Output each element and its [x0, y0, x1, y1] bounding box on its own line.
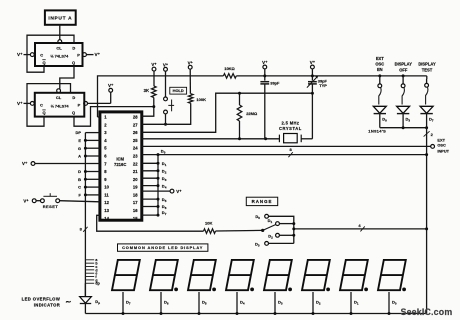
svg-text:½ 74LS74: ½ 74LS74: [51, 103, 70, 108]
terminal V+ pin 7: [31, 162, 35, 166]
wire reset switch to pin 12: [60, 201, 100, 202]
terminal ext osc input: [431, 145, 435, 149]
label HOLD: [170, 87, 187, 94]
svg-text:V⁺: V⁺: [22, 161, 27, 166]
seven-segment digit 1: [112, 260, 140, 290]
junction C1 bottom: [264, 137, 267, 140]
label RANGE box: [246, 197, 277, 205]
svg-text:½ 74LS74: ½ 74LS74: [50, 53, 69, 58]
wire display common rail: [85, 313, 426, 315]
svg-text:V⁺: V⁺: [17, 52, 23, 57]
wire pin 24 to ext osc input: [142, 145, 431, 147]
wire digit 2 cathode stub: [160, 292, 162, 314]
resistor R1 3K: [152, 86, 157, 98]
svg-text:LED OVERFLOW: LED OVERFLOW: [22, 297, 61, 302]
junction rail to S2: [378, 74, 381, 77]
svg-text:TYP: TYP: [319, 83, 327, 88]
wire digit 7 cathode stub: [350, 292, 352, 314]
seven-segment digit 4: [226, 260, 254, 290]
switch S4 display test: [425, 83, 429, 87]
wire segment stub C to U3: [85, 186, 100, 188]
junction D7 cathode / right bus: [425, 126, 428, 129]
svg-text:11: 11: [104, 192, 109, 197]
terminal V+ above R1: [152, 67, 156, 71]
svg-text:SeekIC.com: SeekIC.com: [401, 307, 453, 317]
wire pin 25 crystal line: [142, 138, 280, 140]
svg-text:DISPLAY: DISPLAY: [395, 62, 413, 67]
svg-text:19: 19: [133, 185, 138, 190]
decimal point digit 4: [250, 288, 254, 292]
svg-text:39pF: 39pF: [270, 81, 280, 86]
svg-text:Q: Q: [42, 60, 45, 65]
svg-text:C: C: [78, 185, 81, 190]
terminal U1 CL: [58, 40, 62, 44]
wire segment stub A to U3: [85, 155, 100, 157]
wire U1 P to V+: [86, 54, 93, 56]
svg-text:10K: 10K: [205, 221, 212, 226]
wire range D1 to bus: [279, 223, 293, 225]
svg-text:DP: DP: [75, 130, 81, 135]
junction R1 / U2 Q / pin 28: [152, 105, 155, 108]
svg-text:C: C: [40, 102, 43, 107]
svg-text:C: C: [40, 53, 43, 58]
wire U2 P to V+ stem: [88, 102, 111, 104]
svg-text:26: 26: [133, 130, 138, 135]
svg-text:RANGE: RANGE: [252, 199, 273, 204]
wire range bus to right bus: [294, 228, 427, 230]
seven-segment digit 8: [378, 260, 406, 290]
wire pin 14 to range resistor: [97, 215, 204, 231]
wire digit 8 cathode stub: [388, 292, 390, 314]
wire segment stub B to U3: [85, 178, 100, 180]
svg-text:10KΩ: 10KΩ: [224, 66, 235, 71]
wire digit 1 cathode stub: [122, 292, 124, 314]
junction digit bus / right bus: [425, 153, 428, 156]
input connector INPUT A: [45, 10, 76, 24]
terminal V+ pin 18: [170, 189, 174, 193]
junction 22M top: [238, 92, 241, 95]
bus width marker 2: [424, 131, 430, 136]
svg-text:16: 16: [133, 208, 138, 213]
label COMMON ANODE LED DISPLAY: [118, 244, 208, 251]
svg-text:21: 21: [133, 169, 138, 174]
svg-text:V⁺: V⁺: [188, 60, 193, 65]
svg-text:24: 24: [133, 146, 138, 151]
wire V+ rail top: [98, 76, 224, 117]
junction hold switch / pin 27 line: [164, 123, 167, 126]
svg-text:V⁺: V⁺: [23, 198, 28, 203]
terminal V+ above C2: [311, 65, 315, 69]
svg-text:V⁺: V⁺: [17, 101, 23, 106]
switch S3 display off: [401, 84, 405, 88]
wire segment bus vertical: [84, 133, 86, 297]
svg-text:100K: 100K: [196, 97, 206, 102]
wire R1 bottom to pin 28: [142, 98, 154, 117]
decimal point digit 7: [364, 288, 368, 292]
IC U3 ICM7216C body: [100, 112, 142, 220]
flip-flop U1 1/2 74LS74 body: [35, 43, 83, 66]
wire range D2 to bus: [279, 234, 293, 236]
wire V+ to U2 C: [24, 102, 31, 104]
svg-text:V⁺: V⁺: [95, 52, 101, 57]
svg-text:2.5 MHz: 2.5 MHz: [282, 121, 300, 126]
junction C1 V+ on rail: [263, 74, 266, 77]
seven-segment digit 6: [302, 260, 330, 290]
svg-text:INPUT: INPUT: [437, 148, 449, 153]
junction rail to S3: [402, 74, 405, 77]
svg-text:27: 27: [133, 122, 138, 127]
svg-text:22: 22: [133, 161, 138, 166]
decimal point digit 3: [212, 288, 216, 292]
wire pin stub D2: [142, 170, 158, 172]
terminal U1 C: [30, 53, 34, 57]
svg-text:CL: CL: [56, 45, 62, 50]
svg-text:INPUT A: INPUT A: [48, 16, 72, 22]
svg-text:Q: Q: [72, 110, 75, 115]
wire V+ to pin 7: [35, 163, 100, 165]
wire digit 6 cathode stub: [312, 292, 314, 314]
wire right vertical bus: [426, 128, 428, 314]
switch S5 reset pushbutton: [41, 199, 45, 203]
decimal point digit 5: [288, 288, 292, 292]
svg-text:P: P: [78, 102, 81, 107]
svg-text:V⁺: V⁺: [151, 62, 156, 67]
svg-text:V⁺: V⁺: [262, 60, 267, 65]
svg-text:V⁺: V⁺: [108, 83, 114, 88]
wire segment stub E to U3: [85, 139, 100, 141]
wire segment stub DP to U3: [85, 132, 100, 134]
svg-text:22MΩ: 22MΩ: [246, 111, 258, 116]
decimal point digit 8: [402, 288, 406, 292]
wire segment stub G to U3: [85, 147, 100, 149]
svg-text:EXT: EXT: [376, 56, 384, 61]
svg-text:A: A: [78, 154, 81, 159]
wire digit bus D0 line: [142, 154, 427, 156]
wire hold switch to pin 27 line: [165, 114, 167, 124]
svg-text:Q: Q: [72, 60, 75, 65]
decimal point digit 6: [326, 288, 330, 292]
wire digit 3 cathode stub: [198, 292, 200, 314]
wire digit 5 cathode stub: [274, 292, 276, 314]
terminal V+ above U2 P: [109, 88, 113, 92]
terminal V+ above hold switch: [164, 67, 168, 71]
switch S6 range pole: [261, 229, 264, 232]
wire reset V+ to switch: [36, 200, 40, 202]
terminal V+ above R2: [188, 65, 192, 69]
svg-text:12: 12: [104, 200, 109, 205]
svg-text:OSC: OSC: [437, 143, 446, 148]
wire U1 Q-bar to D feedback loop: [27, 35, 74, 72]
resistor R5 10K: [204, 229, 216, 234]
svg-text:13: 13: [104, 208, 109, 213]
wire pin stub D7 pin 15: [142, 214, 158, 216]
trimmer capacitor C2 39pF TYP: [308, 81, 317, 83]
svg-text:OFF: OFF: [399, 67, 408, 72]
terminal V+ above C1: [263, 65, 267, 69]
wire digit 4 cathode stub: [236, 292, 238, 314]
svg-text:15: 15: [133, 216, 138, 221]
svg-text:DISPLAY: DISPLAY: [418, 62, 436, 67]
wire V+ to U1 C: [24, 54, 31, 56]
svg-text:D: D: [72, 95, 75, 100]
svg-text:17: 17: [133, 200, 138, 205]
switch S2 ext osc en: [378, 84, 382, 88]
wire pin stub D4: [142, 185, 158, 187]
flip-flop U2 1/2 74LS74 body: [35, 93, 85, 117]
svg-text:D: D: [78, 169, 81, 174]
svg-text:18: 18: [133, 192, 138, 197]
svg-text:EN: EN: [377, 67, 383, 72]
resistor R2 100K: [188, 94, 193, 104]
diode D3 1N914: [397, 106, 410, 113]
decimal point digit 2: [174, 288, 178, 292]
junction range bus / right bus: [425, 227, 428, 230]
wire pin stub D1: [142, 162, 158, 164]
svg-text:28: 28: [133, 115, 138, 120]
svg-text:COMMON ANODE LED DISPLAY: COMMON ANODE LED DISPLAY: [122, 245, 203, 250]
junction D3 cathode: [402, 126, 405, 129]
svg-text:OSC: OSC: [375, 62, 384, 67]
wire digit bus vertical: [157, 155, 159, 216]
svg-text:∼: ∼: [65, 299, 71, 306]
junction crystal right / pin26 line / C2: [311, 92, 314, 95]
svg-text:INDICATOR: INDICATOR: [34, 302, 60, 307]
wire pin 18 to V+: [142, 190, 170, 192]
svg-text:20: 20: [133, 177, 138, 182]
wire U1 Q to U2 clock: [60, 66, 74, 89]
switch S1 hold pushbutton: [164, 97, 168, 101]
svg-text:1N914'S: 1N914'S: [368, 129, 386, 134]
wire segment stub D to U3: [85, 171, 100, 173]
svg-text:TEST: TEST: [422, 67, 433, 72]
diode D7 1N914: [420, 106, 433, 113]
seven-segment digit 2: [150, 260, 178, 290]
svg-text:7216C: 7216C: [114, 162, 126, 167]
svg-text:V⁺: V⁺: [310, 60, 315, 65]
junction digit bus corner pin 23: [157, 153, 160, 156]
svg-text:14: 14: [104, 216, 109, 221]
resistor R3 22M-ohm: [239, 93, 241, 105]
led overflow indicator D-P: [84, 283, 86, 296]
svg-text:3K: 3K: [144, 88, 149, 93]
wire INPUT A to FF1 clock: [59, 25, 61, 40]
svg-text:10: 10: [104, 185, 109, 190]
svg-text:E: E: [78, 138, 81, 143]
capacitor C1 39pF: [260, 81, 269, 83]
svg-text:D: D: [72, 45, 75, 50]
segment fanout a-g dp: [85, 259, 94, 261]
terminal reset V+: [32, 199, 36, 203]
seven-segment digit 3: [188, 260, 216, 290]
terminal U2 CL: [57, 89, 61, 93]
terminal U2 C: [30, 102, 34, 106]
wire diode cathode line: [380, 127, 427, 129]
junction C2 trimmer on rail: [311, 74, 314, 77]
svg-text:V⁺: V⁺: [163, 62, 168, 67]
svg-text:P: P: [77, 53, 80, 58]
resistor R4 10K-ohm in rail: [223, 74, 236, 79]
svg-text:25: 25: [133, 138, 138, 143]
wire pin stub D5: [142, 198, 158, 200]
wire segment stub F to U3: [85, 194, 100, 196]
terminal U1 P: [83, 53, 87, 57]
svg-text:23: 23: [133, 154, 138, 159]
terminal U2 P: [84, 102, 88, 106]
junction 22M bottom: [238, 137, 241, 140]
wire range D3 to bus: [269, 242, 294, 244]
wire U2 Q-bar to D feedback loop: [27, 84, 71, 127]
wire U2 Q to R1 junction: [74, 107, 154, 127]
wire range D0 to bus: [269, 216, 294, 243]
wire pin 26 to oscillator top: [142, 93, 240, 132]
wire pin stub D3: [142, 177, 158, 179]
svg-text:B: B: [78, 177, 81, 182]
wire rail end to S4: [426, 76, 428, 79]
diode D0 1N914: [373, 106, 386, 113]
svg-text:RESET: RESET: [43, 204, 59, 209]
svg-text:CL: CL: [56, 95, 62, 100]
svg-text:HOLD: HOLD: [173, 88, 184, 93]
seven-segment digit 7: [340, 260, 368, 290]
svg-text:CRYSTAL: CRYSTAL: [279, 126, 302, 131]
svg-text:Q: Q: [42, 110, 45, 115]
svg-text:V⁺: V⁺: [176, 189, 181, 194]
wire pin stub D6: [142, 206, 158, 208]
svg-text:G: G: [78, 146, 81, 151]
seven-segment digit 5: [264, 260, 292, 290]
wire pin 27 to R2 bottom: [142, 103, 191, 124]
